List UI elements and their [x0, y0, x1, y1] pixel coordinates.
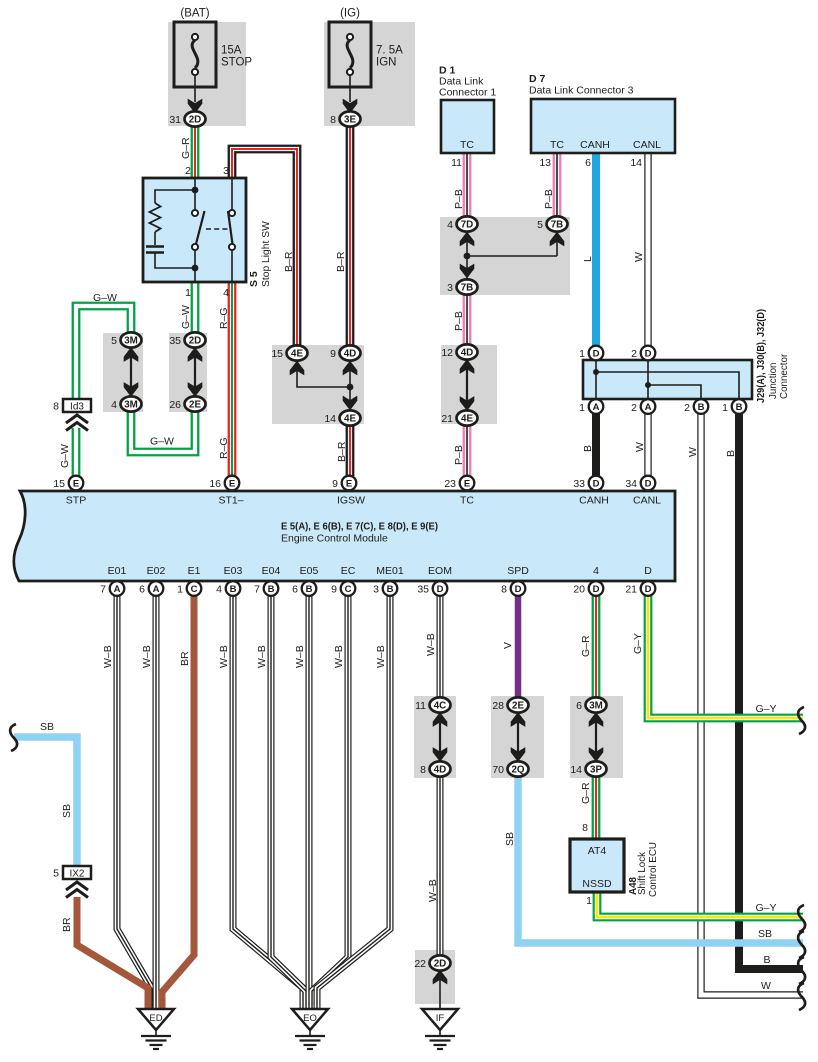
svg-text:E: E	[346, 478, 352, 489]
svg-text:7: 7	[100, 584, 106, 596]
svg-text:B: B	[230, 584, 237, 595]
svg-text:C: C	[345, 584, 352, 595]
svg-text:1: 1	[177, 584, 183, 596]
svg-text:E04: E04	[262, 565, 281, 577]
svg-text:J29(A), J30(B), J32(D): J29(A), J30(B), J32(D)	[756, 309, 767, 403]
svg-text:Control ECU: Control ECU	[648, 842, 659, 897]
svg-text:G–R: G–R	[580, 782, 592, 804]
svg-text:IF: IF	[436, 1013, 445, 1024]
svg-text:ME01: ME01	[376, 565, 404, 577]
svg-text:8: 8	[582, 822, 588, 834]
svg-text:14: 14	[570, 764, 582, 776]
svg-text:CANL: CANL	[633, 495, 661, 507]
svg-text:SB: SB	[504, 832, 516, 846]
svg-text:A: A	[645, 402, 652, 413]
svg-text:7B: 7B	[551, 219, 564, 230]
svg-text:G–R: G–R	[580, 635, 592, 657]
svg-text:6: 6	[576, 700, 582, 712]
svg-text:G–Y: G–Y	[755, 703, 776, 715]
svg-text:D: D	[593, 478, 600, 489]
svg-text:70: 70	[492, 764, 504, 776]
svg-text:26: 26	[169, 399, 181, 411]
svg-text:2D: 2D	[189, 335, 202, 346]
svg-text:R–G: R–G	[218, 307, 230, 329]
svg-text:Engine Control Module: Engine Control Module	[281, 533, 388, 545]
svg-text:4E: 4E	[461, 413, 473, 424]
svg-text:ST1–: ST1–	[218, 495, 243, 507]
svg-text:P–B: P–B	[543, 189, 555, 209]
svg-text:3: 3	[447, 282, 453, 294]
svg-text:3E: 3E	[344, 114, 356, 125]
svg-text:8: 8	[330, 114, 336, 126]
svg-text:W: W	[687, 447, 699, 457]
svg-text:2Q: 2Q	[511, 764, 524, 775]
svg-text:EC: EC	[341, 565, 356, 577]
svg-text:P–B: P–B	[453, 445, 465, 465]
svg-text:TC: TC	[550, 139, 564, 151]
svg-text:B: B	[268, 584, 275, 595]
svg-text:1: 1	[579, 348, 585, 360]
svg-text:Connector: Connector	[779, 353, 790, 399]
svg-text:W–B: W–B	[256, 645, 268, 668]
svg-text:B: B	[306, 584, 313, 595]
svg-text:4E: 4E	[344, 413, 356, 424]
svg-text:W: W	[633, 252, 645, 262]
svg-text:CANH: CANH	[580, 139, 610, 151]
svg-text:34: 34	[625, 478, 637, 490]
svg-text:1: 1	[579, 402, 585, 414]
svg-text:9: 9	[330, 348, 336, 360]
svg-text:SPD: SPD	[507, 565, 529, 577]
svg-text:3M: 3M	[124, 399, 138, 410]
svg-text:11: 11	[415, 700, 426, 712]
svg-text:11: 11	[451, 157, 462, 169]
svg-text:TC: TC	[460, 495, 474, 507]
svg-text:W–B: W–B	[427, 879, 439, 902]
svg-text:6: 6	[139, 584, 145, 596]
svg-text:4: 4	[223, 287, 229, 299]
svg-text:7B: 7B	[461, 282, 474, 293]
svg-text:B–R: B–R	[336, 441, 348, 462]
svg-text:22: 22	[414, 958, 426, 970]
svg-text:P–B: P–B	[453, 311, 465, 331]
svg-text:G–R: G–R	[180, 137, 192, 159]
svg-text:E: E	[464, 478, 470, 489]
svg-text:7D: 7D	[461, 219, 474, 230]
svg-text:CANH: CANH	[579, 495, 609, 507]
svg-text:35: 35	[417, 584, 429, 596]
svg-text:Id3: Id3	[70, 402, 84, 413]
svg-text:E02: E02	[147, 565, 166, 577]
svg-text:21: 21	[441, 413, 453, 425]
svg-text:ED: ED	[149, 1013, 162, 1024]
svg-text:8: 8	[420, 764, 426, 776]
svg-text:EOM: EOM	[428, 565, 452, 577]
svg-text:E03: E03	[224, 565, 243, 577]
svg-text:6: 6	[585, 157, 591, 169]
svg-text:2D: 2D	[189, 114, 202, 125]
svg-text:V: V	[502, 642, 514, 649]
svg-text:TC: TC	[460, 139, 474, 151]
svg-text:2: 2	[631, 348, 637, 360]
svg-text:IX2: IX2	[69, 869, 84, 880]
svg-text:IGN: IGN	[376, 57, 396, 69]
svg-text:W: W	[761, 980, 771, 992]
svg-text:7: 7	[254, 584, 260, 596]
svg-text:W–B: W–B	[218, 645, 230, 668]
svg-text:15: 15	[53, 478, 65, 490]
svg-text:AT4: AT4	[588, 845, 607, 857]
svg-text:G–W: G–W	[180, 305, 192, 329]
svg-text:21: 21	[625, 584, 637, 596]
svg-text:15A: 15A	[221, 45, 242, 57]
svg-text:B: B	[582, 445, 594, 452]
svg-text:35: 35	[169, 335, 181, 347]
svg-text:W–B: W–B	[425, 633, 437, 656]
svg-text:SB: SB	[40, 721, 54, 733]
svg-text:5: 5	[53, 868, 59, 880]
svg-text:G–W: G–W	[59, 444, 71, 468]
svg-text:4D: 4D	[344, 348, 357, 359]
svg-text:W–B: W–B	[333, 645, 345, 668]
svg-text:1: 1	[185, 287, 191, 299]
svg-text:E 5(A), E 6(B), E 7(C), E 8(D): E 5(A), E 6(B), E 7(C), E 8(D), E 9(E)	[281, 521, 438, 533]
svg-text:E1: E1	[188, 565, 201, 577]
svg-text:2: 2	[684, 402, 690, 414]
svg-text:BR: BR	[61, 917, 73, 932]
svg-text:2: 2	[631, 402, 637, 414]
svg-text:STP: STP	[66, 495, 86, 507]
svg-text:2: 2	[185, 165, 191, 177]
svg-text:5: 5	[537, 219, 543, 231]
svg-text:1: 1	[722, 402, 728, 414]
svg-text:9: 9	[332, 478, 338, 490]
svg-text:3M: 3M	[124, 335, 138, 346]
svg-text:D: D	[515, 584, 522, 595]
svg-text:2E: 2E	[189, 399, 201, 410]
svg-text:28: 28	[492, 700, 504, 712]
svg-text:9: 9	[331, 584, 337, 596]
svg-text:SB: SB	[61, 804, 73, 818]
svg-text:B: B	[763, 954, 770, 966]
svg-text:Stop Light SW: Stop Light SW	[261, 221, 272, 287]
svg-text:D: D	[645, 584, 652, 595]
svg-text:14: 14	[630, 157, 642, 169]
svg-text:P–B: P–B	[453, 189, 465, 209]
svg-text:B: B	[387, 584, 394, 595]
svg-text:16: 16	[209, 478, 221, 490]
svg-text:D: D	[593, 348, 600, 359]
svg-text:R–G: R–G	[218, 437, 230, 459]
svg-text:12: 12	[441, 347, 453, 359]
svg-text:A: A	[114, 584, 121, 595]
svg-text:Shift Lock: Shift Lock	[637, 852, 648, 895]
svg-text:4E: 4E	[291, 348, 303, 359]
svg-text:B: B	[736, 402, 743, 413]
svg-text:W–B: W–B	[141, 645, 153, 668]
svg-text:5: 5	[111, 335, 117, 347]
svg-text:4D: 4D	[434, 764, 447, 775]
svg-text:Data Link Connector 3: Data Link Connector 3	[529, 85, 634, 97]
svg-text:20: 20	[573, 584, 585, 596]
svg-text:E: E	[73, 478, 79, 489]
svg-text:Junction: Junction	[768, 363, 779, 400]
svg-text:D: D	[644, 565, 652, 577]
svg-text:2E: 2E	[512, 700, 524, 711]
svg-text:G–W: G–W	[150, 436, 174, 448]
svg-text:4: 4	[593, 565, 599, 577]
svg-text:E: E	[229, 478, 235, 489]
svg-text:Connector 1: Connector 1	[439, 87, 496, 99]
svg-text:8: 8	[53, 401, 59, 413]
svg-text:W–B: W–B	[375, 645, 387, 668]
svg-text:CANL: CANL	[633, 139, 661, 151]
svg-text:1: 1	[586, 895, 592, 907]
svg-text:15: 15	[271, 348, 283, 360]
svg-text:BR: BR	[179, 651, 191, 666]
svg-text:B: B	[698, 402, 705, 413]
svg-text:4: 4	[216, 584, 222, 596]
svg-text:(IG): (IG)	[340, 8, 360, 20]
svg-text:23: 23	[444, 478, 456, 490]
svg-text:8: 8	[501, 584, 507, 596]
svg-text:D: D	[437, 584, 444, 595]
svg-text:3M: 3M	[589, 700, 603, 711]
svg-text:C: C	[191, 584, 198, 595]
svg-text:B–R: B–R	[283, 251, 295, 272]
svg-text:STOP: STOP	[221, 57, 252, 69]
svg-text:A: A	[153, 584, 160, 595]
svg-text:(BAT): (BAT)	[180, 8, 209, 20]
svg-text:D 7: D 7	[529, 73, 546, 85]
svg-text:33: 33	[573, 478, 585, 490]
svg-text:31: 31	[169, 114, 181, 126]
svg-text:E01: E01	[108, 565, 127, 577]
svg-text:S 5: S 5	[248, 271, 260, 287]
svg-text:3: 3	[223, 165, 229, 177]
svg-text:D: D	[645, 478, 652, 489]
svg-text:W: W	[634, 442, 646, 452]
svg-text:13: 13	[539, 157, 551, 169]
svg-text:3: 3	[373, 584, 379, 596]
svg-text:4D: 4D	[461, 347, 474, 358]
svg-text:D: D	[645, 348, 652, 359]
svg-text:G–Y: G–Y	[755, 902, 776, 914]
svg-text:D: D	[593, 584, 600, 595]
svg-text:EO: EO	[303, 1013, 317, 1024]
svg-text:E05: E05	[300, 565, 319, 577]
svg-text:IGSW: IGSW	[337, 495, 365, 507]
svg-text:L: L	[582, 256, 594, 262]
svg-text:G–W: G–W	[93, 292, 117, 304]
svg-text:4C: 4C	[434, 700, 447, 711]
svg-text:14: 14	[324, 413, 336, 425]
svg-text:B: B	[725, 450, 737, 457]
svg-text:W–B: W–B	[294, 645, 306, 668]
svg-text:3P: 3P	[590, 764, 602, 775]
svg-text:A: A	[593, 402, 600, 413]
svg-text:SB: SB	[758, 928, 772, 940]
svg-text:2D: 2D	[434, 958, 447, 969]
svg-text:W–B: W–B	[102, 645, 114, 668]
svg-text:7. 5A: 7. 5A	[376, 45, 403, 57]
svg-text:B–R: B–R	[335, 251, 347, 272]
svg-text:G–Y: G–Y	[632, 633, 644, 654]
svg-text:4: 4	[447, 219, 453, 231]
svg-text:6: 6	[292, 584, 298, 596]
svg-text:4: 4	[111, 399, 117, 411]
svg-text:NSSD: NSSD	[582, 878, 612, 890]
